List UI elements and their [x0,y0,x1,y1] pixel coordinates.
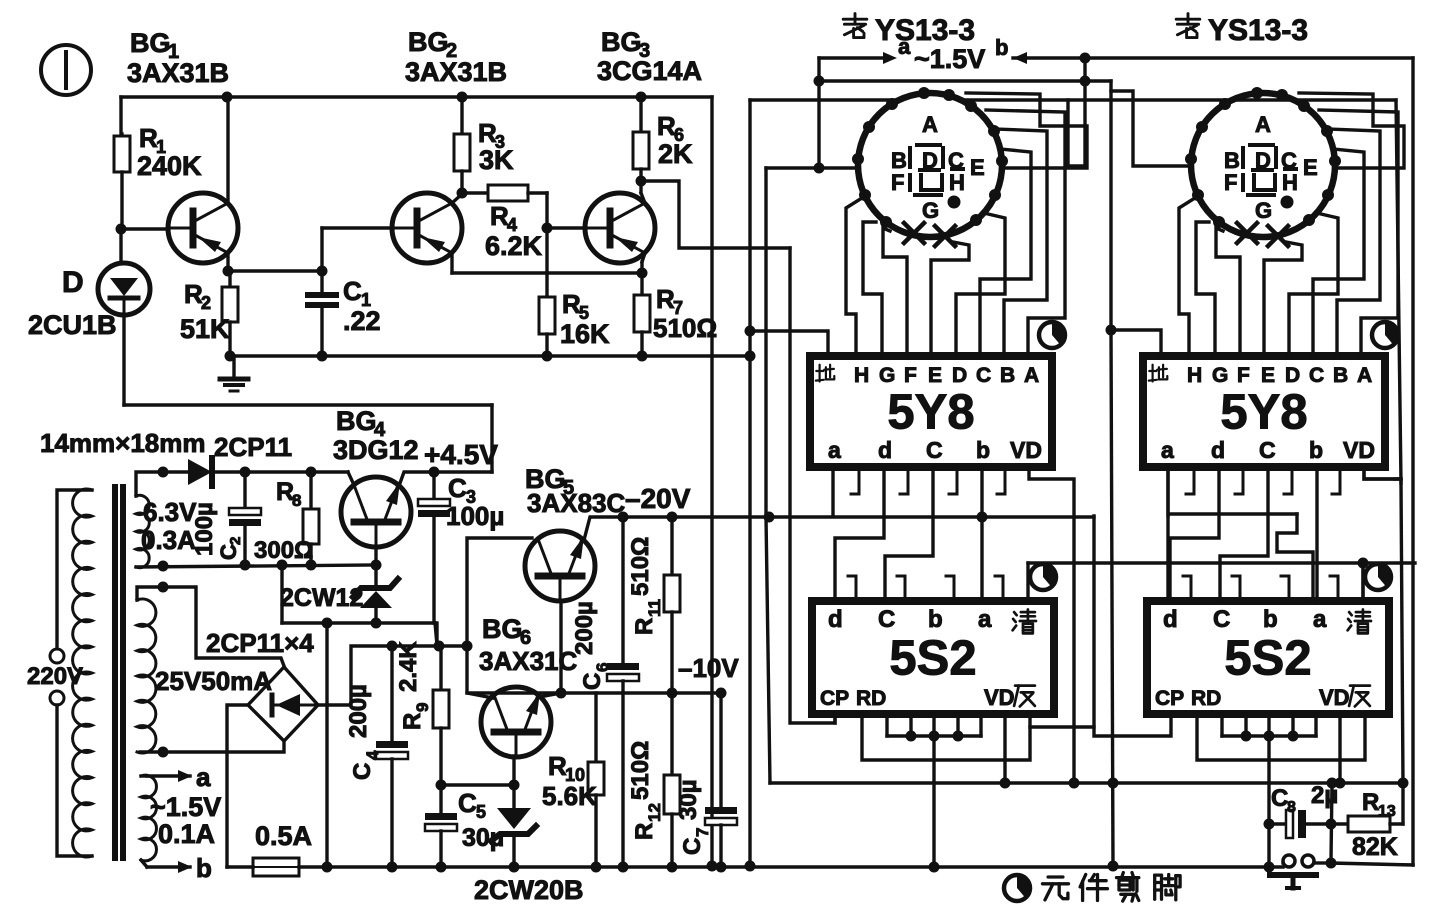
node base line x282 [277,560,288,571]
svg-text:3CG14A: 3CG14A [597,56,702,86]
svg-text:b: b [976,437,990,463]
svg-text:R: R [1362,789,1379,816]
node rail R12 [667,862,678,873]
svg-text:VD: VD [1010,437,1042,463]
svg-text:5S2: 5S2 [1224,632,1311,686]
wire VD2 riser join [1395,477,1401,480]
wire 5Y8-2 A pin to tube [1319,110,1398,356]
wire 5Y8-1 H pin to tube [846,198,862,356]
svg-text:G: G [879,364,895,387]
wire staircase C 1 [885,467,933,601]
clock icon near 5S2 1 [1030,564,1056,590]
wire rectified 6.3V line [212,470,348,473]
svg-text:G: G [922,198,939,223]
wire BG4 collector to supply [348,472,354,485]
wire 5Y8-2 D pin to tube [1289,214,1338,356]
wire 5Y8-2 B pin to tube [1328,129,1380,356]
capacitor C6 200u [621,517,624,663]
svg-text:d: d [878,437,892,463]
capacitor C4 200u [390,646,393,741]
node C2 top [240,467,251,478]
svg-text:BG: BG [482,614,523,644]
wire tube 2 E-side loop [1299,93,1404,168]
svg-text:C: C [1213,606,1230,633]
clock icon near 5S2 2 [1365,564,1391,590]
wire 5Y8-2 F pin to tube [1216,228,1240,356]
node R3 bottom / R4 left [457,188,468,199]
wire bus1 tail to CP2 [1094,516,1171,736]
node C7 top [716,688,727,699]
svg-text:0.1A: 0.1A [158,819,215,849]
svg-text:C: C [343,276,362,306]
wire top supply rail [121,95,712,99]
svg-text:2CU1B: 2CU1B [28,310,117,340]
wire +4.5V up to frame [490,405,493,472]
label qing (clear pin) 5S2 2 [1349,612,1352,615]
rectifier diode 2CP11 [188,459,212,485]
capacitor C5 30u [439,785,442,813]
wire 5Y8-2 C pin to tube [1313,149,1364,356]
svg-text:12: 12 [645,803,664,822]
svg-text:a: a [978,606,992,633]
node VD1 riser on reset bus [1069,778,1080,789]
display tube 1 [858,93,1002,237]
node top rail / BG1 collector [222,92,233,103]
wire gnd tap to 5Y8-2 gnd pin [1111,330,1161,356]
wire 5Y8-1 pin a down [831,467,834,516]
wire R13 right riser [1401,783,1404,824]
wire display2 filament branch [1111,91,1191,166]
wire filament line y100 [750,58,1085,166]
svg-text:13: 13 [1378,803,1396,820]
svg-text:A: A [1255,112,1271,137]
svg-text:6.3V: 6.3V [143,497,197,527]
transformer core [112,487,118,858]
wire bus2 staircase tail [1277,514,1313,601]
svg-text:C: C [448,473,467,503]
wire left branch from rail to R1 [119,97,122,134]
svg-text:E: E [928,364,942,387]
svg-text:a: a [196,762,211,792]
svg-text:11: 11 [645,599,664,617]
svg-text:b: b [1263,606,1278,633]
node zener bottom [371,618,382,629]
wire BG1 emitter down [226,253,229,271]
clock icon legend [1004,875,1030,901]
node secondary2 bottom [158,747,169,758]
wire BG1 emitter to C1 node [228,269,322,272]
svg-text:6.2K: 6.2K [485,231,543,261]
wire 5Y8-1 B pin to tube [995,129,1047,356]
label qing (clear pin) 5S2 1 [1014,612,1017,615]
svg-text:A: A [922,112,938,137]
svg-text:VD: VD [984,685,1015,710]
node zener line x327 [322,618,333,629]
svg-text:a: a [898,34,911,59]
wire BG6 emitter to BG5 base [539,693,561,697]
svg-text:VD: VD [1343,437,1375,463]
node C4 top [387,641,398,652]
wire 5Y8-1 G pin to tube [863,222,882,356]
wire secondary2 bottom lead [140,742,284,752]
wire display2 gnd riser x1111 [1109,81,1112,330]
wire D anode down to +4.5V frame [122,315,125,405]
svg-text:5: 5 [476,802,486,822]
svg-text:BG: BG [130,28,171,58]
wire BG5 base down [559,601,562,693]
transistor BG4 3DG12 [341,477,411,547]
node BG1 base / R1 / D [116,224,127,235]
wire frame line to D [124,403,492,406]
svg-text:25V50mA: 25V50mA [155,666,272,696]
5Y8 1 unused bottom pins [851,467,859,494]
svg-text:R: R [631,823,658,840]
zener diode 2CW20B [512,756,515,808]
transistor BG5 3AX83C [525,531,595,601]
svg-text:D: D [62,266,84,299]
svg-text:d: d [1163,606,1178,633]
node y81 x819 [814,76,825,87]
svg-text:E: E [1303,155,1318,180]
svg-text:E: E [970,155,985,180]
wire C3/zener line down to negative node [435,623,437,645]
wire BG3 collector up [641,193,645,203]
wire ground tap to 5Y8-1 gnd pin [750,331,828,356]
node bus1 x770 [764,512,775,523]
node R8 bottom [306,560,317,571]
svg-text:a: a [1313,606,1327,633]
svg-text:2: 2 [227,537,244,545]
node C3 top [429,467,440,478]
wire x327 down to bottom rail [325,623,328,867]
resistor R12 [670,693,673,775]
node rail C6 [618,862,629,873]
wire R4 right down to BG3 base and R5 [545,193,548,297]
node top rail / R6 [636,92,647,103]
svg-text:2CP11: 2CP11 [214,432,292,462]
svg-text:H: H [1187,364,1202,387]
wire 5Y8-2 G pin to tube [1196,222,1215,356]
transformer secondary 25V coil [137,599,156,753]
label di (ground pin) 5Y8 2 [1151,365,1153,382]
node R8 top [306,467,317,478]
node C6 top [618,512,629,523]
svg-text:240K: 240K [137,151,202,181]
node y81 / x1085 [1080,76,1091,87]
node R9 bottom / C5 [436,780,447,791]
wire BG5 emitter to -20V [584,517,1094,540]
node secondary1 top [158,467,169,478]
resistor R1 [120,134,123,136]
svg-text:9: 9 [413,703,432,712]
5Y8 decoder box 1 [810,356,1052,467]
wire BG3 base [547,226,585,229]
node top rail / R3 [457,92,468,103]
node R9 top [434,641,445,652]
node BG3 emitter / R7 [637,268,648,279]
transformer primary coil [73,489,92,857]
display tube 2 [1191,93,1335,237]
svg-text:F: F [904,364,917,387]
wire tied pins down to rail 1 [932,736,935,867]
svg-text:~1.5V: ~1.5V [914,44,985,74]
transformer secondary 1.5V coil [141,775,156,861]
wire oscillator output from BG3 collector [641,181,790,248]
svg-text:F: F [891,170,904,195]
wire VD 2 branch [1364,467,1401,479]
wire bottom rail left [227,865,253,869]
svg-text:510Ω: 510Ω [627,537,654,596]
svg-text:–20V: –20V [625,483,691,514]
figure number badge (1) [41,45,91,95]
svg-text:16K: 16K [560,319,610,349]
wire BG1 base [121,227,168,230]
5Y8 2 unused bottom pins [1186,467,1194,494]
node bus1 b-wire [977,512,988,523]
photodiode D 2CU1B [119,229,122,263]
node reset line x1403 [1398,778,1409,789]
svg-text:b: b [928,606,943,633]
5S2 counter box 1 [812,601,1054,714]
wire tied pins down to rail 2 [1267,736,1270,867]
svg-text:A: A [1357,364,1372,387]
node BG6 base bottom [509,780,520,791]
wire VD 2 pin down [1338,714,1341,783]
svg-text:d: d [828,606,843,633]
label di (ground pin) 5Y8 1 [818,365,820,382]
wire x1111 to rail [1111,330,1113,866]
svg-text:2CW12: 2CW12 [280,584,363,612]
wire clear pin riser 2 [1361,563,1364,601]
wire 5Y8-2 a to 5S2-2 d [1166,467,1169,601]
wire 2CW12 line to R9 node [435,623,438,645]
resistor R6 [639,97,642,132]
svg-text:b: b [196,853,212,883]
node rail x712 [707,861,718,872]
ground symbol [232,356,235,377]
wire clear bus y563 [1028,561,1415,564]
wire VD 1 pin down [1003,714,1006,783]
wire 5Y8-2 pin a down [1166,467,1169,516]
svg-text:100µ: 100µ [446,501,504,531]
wire filament line y99 to frame [1068,98,1396,101]
capacitor C1 .22 [320,271,323,292]
svg-text:2: 2 [201,293,211,313]
node ground rail R5 [542,351,553,362]
svg-text:300Ω: 300Ω [254,537,313,564]
svg-text:D: D [952,364,967,387]
node ground rail R7 [637,351,648,362]
node ground rail right end [745,351,756,362]
clock icon near 5Y8 2 [1372,322,1398,348]
svg-text:6: 6 [593,663,612,672]
svg-text:200µ: 200µ [345,684,372,738]
svg-text:5.6K: 5.6K [542,781,597,811]
wire frame y99 riser down to reset line [1396,100,1401,483]
resistor R8 [309,472,312,509]
transformer primary lead top [57,490,92,646]
svg-text:BG: BG [408,27,449,57]
svg-text:C: C [976,364,991,387]
svg-text:a: a [828,437,841,463]
svg-text:510Ω: 510Ω [653,313,717,343]
node x1111 y330 [1106,325,1117,336]
svg-text:3AX31B: 3AX31B [405,57,507,87]
resistor R5 [545,295,548,298]
svg-text:+4.5V: +4.5V [424,439,498,470]
svg-text:H: H [949,170,965,195]
svg-text:2CW20B: 2CW20B [474,875,584,905]
wire filament b-segment [1013,52,1027,64]
svg-text:5Y8: 5Y8 [1220,386,1307,440]
wire VD 1 branch [1029,467,1074,783]
node C2 bottom [240,560,251,571]
node R11 bottom -10V [667,688,678,699]
wire BG5 collector [467,538,532,643]
svg-text:E: E [1261,364,1275,387]
svg-text:G: G [1255,198,1272,223]
node clear bus unit2 [1358,558,1369,569]
transistor BG3 [585,193,655,263]
resistor R13 82K [1331,822,1348,825]
svg-text:3AX83C: 3AX83C [527,488,625,518]
node switch right [1326,858,1337,869]
transistor BG6 3AX31C [481,687,551,757]
capacitor C8 2u [1269,822,1286,825]
wire filament lead b with arrow [141,860,147,867]
svg-text:100µ: 100µ [191,502,218,556]
bridge inner diode [276,694,300,716]
bridge rectifier 2CP11x4 diamond [248,667,318,741]
node C8/R13 junction [1326,819,1337,830]
wire -10V divider line [467,691,721,694]
wire BG2 emitter down [450,253,453,273]
node riser on reset line [1327,778,1338,789]
node y168 x819 [814,163,825,174]
node ground rail C1 [317,351,328,362]
svg-text:RD: RD [856,687,886,710]
node rail C4 [387,862,398,873]
wire filament lead a with arrow [141,774,147,777]
svg-text:F: F [1224,170,1237,195]
svg-text:2K: 2K [658,139,693,169]
svg-text:R: R [399,713,426,730]
wire BG4 base down [374,547,377,565]
wire 5Y8-1 E pin to tube [931,242,969,356]
node BG3 collector / R6 / output [636,176,647,187]
terminal circle 220V top [50,649,64,663]
transistor BG2 [392,193,462,263]
zener diode 2CW12 [374,565,377,588]
capacitor C3 100u [432,472,435,499]
svg-text:CP: CP [1155,687,1184,710]
svg-text:C: C [458,788,477,818]
svg-text:VD: VD [1319,685,1350,710]
node BG1 emitter junction [223,266,234,277]
wire CP1 elbow [833,714,836,723]
capacitor C7 30u [719,693,722,807]
5S2 2 unused bottom pins tied [1220,714,1223,736]
svg-text:F: F [1237,364,1250,387]
svg-text:C: C [926,437,943,463]
wire staircase b 1 [980,467,983,601]
node rail x327 [322,862,333,873]
wire 5Y8-2 E pin to tube [1264,242,1302,356]
wire C1 to BG2 base link [320,228,323,271]
wire BG1 collector to rail [226,99,229,203]
wire emitter link line BG2-BG3 [452,271,642,274]
svg-text:B: B [1333,364,1348,387]
wire BG6 collector from raw supply [467,646,493,698]
node riser y331 [745,326,756,337]
svg-text:R: R [631,618,658,635]
node BG5 base [556,688,567,699]
5S2 2 unused top pins [1183,576,1191,601]
svg-text:RD: RD [1191,687,1221,710]
wire bridge right corner output [318,646,467,705]
5S2 counter box 2 [1147,601,1389,714]
svg-text:C: C [878,606,895,633]
svg-text:82K: 82K [1352,833,1398,861]
svg-text:C: C [579,673,606,690]
wire oscillator output riser x790 [790,248,835,723]
svg-text:C: C [1271,785,1288,812]
wire x766 vertical [764,168,767,517]
resistor R7 [640,273,643,295]
node rail C7 [716,862,727,873]
clock icon near 5Y8 1 [1039,322,1065,348]
wire bus2 y514 [1170,512,1297,515]
svg-text:30µ: 30µ [675,779,702,820]
transformer secondary 6.3V coil [136,495,149,567]
wire zener bottom line [282,621,435,624]
wire secondary2 top lead [137,587,284,666]
wire RD-VD loop below 5S2 1 [862,714,1030,760]
wire filament riser x819 [817,58,820,168]
resistor R9 [439,646,442,690]
5S2 1 unused top pins [848,576,856,601]
node rail C5 [436,862,447,873]
svg-text:–10V: –10V [678,653,739,683]
wire staircase d 2 [1170,467,1219,601]
wire RD-VD loop below 5S2 2 [1197,714,1365,760]
wire tube 1 E-side loop [966,93,1087,168]
label lao YS13-3 tube 1 [843,18,867,21]
label fan (invert pin) 5S2 2 [1350,684,1370,687]
node rail R10 [591,862,602,873]
node rail x1113 [1108,861,1119,872]
label lao YS13-3 tube 2 [1176,18,1200,21]
svg-text:2CP11×4: 2CP11×4 [206,628,314,658]
resistor R10 [588,762,604,795]
svg-text:14mm×18mm: 14mm×18mm [40,428,206,458]
label fan (invert pin) 5S2 1 [1015,684,1035,687]
wire rail right end corner [1281,861,1284,864]
svg-text:3K: 3K [479,145,514,175]
node R11 top [667,512,678,523]
svg-text:8: 8 [292,491,301,510]
wire base line y785 [441,783,514,786]
node C1 top [317,266,328,277]
wire display1 left pin line y168 [766,166,858,169]
svg-text:d: d [1211,437,1225,463]
wire 5Y8-1 C pin to tube [980,149,1031,356]
svg-text:BG: BG [336,406,377,436]
node BG3 base [542,223,553,234]
wire oscillator ground rail [230,354,747,358]
svg-text:D: D [1285,364,1300,387]
wire right frame vertical from b-line [1411,58,1414,865]
